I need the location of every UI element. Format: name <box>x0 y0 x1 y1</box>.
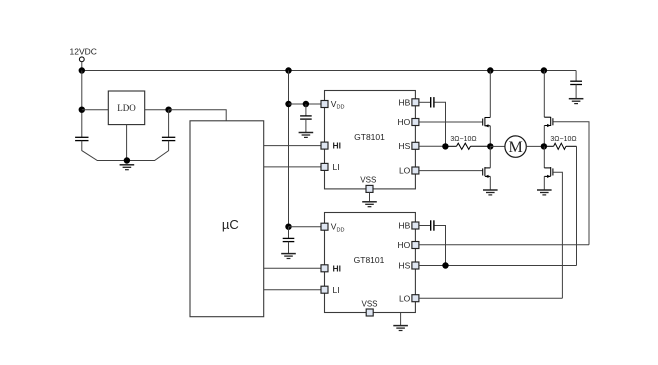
ground G8 <box>569 99 584 104</box>
pin HO U1 <box>412 119 419 126</box>
ground G3 <box>281 254 296 259</box>
node LDO input <box>79 107 85 113</box>
ground G1 <box>120 165 135 170</box>
wire rail to C7 <box>575 71 577 82</box>
motor M <box>505 136 526 157</box>
wire top supply rail <box>82 70 576 72</box>
node rail-vdd <box>285 67 291 73</box>
wire to LDO input <box>82 109 109 111</box>
wire VSS1 stem <box>369 192 371 201</box>
wire HS1 row <box>419 145 446 147</box>
wire uC to LI1 <box>264 166 321 168</box>
pin HI U1 <box>321 142 328 149</box>
wire LDO ground stem <box>126 125 128 161</box>
capacitor C7 <box>570 81 582 84</box>
wire VDD rail vertical <box>288 71 290 227</box>
terminal 12VDC <box>79 57 84 62</box>
node HS1 <box>442 143 448 149</box>
wire VDD1 to pin <box>289 103 322 105</box>
node VDD2 <box>285 224 291 230</box>
svg-text:HS: HS <box>398 141 410 151</box>
arrow Q4 source <box>547 175 550 178</box>
ground G6 <box>483 190 498 195</box>
svg-text:LO: LO <box>399 293 411 303</box>
wire terminal to rail <box>81 62 83 71</box>
svg-text:VSS: VSS <box>360 176 376 185</box>
svg-text:LI: LI <box>333 162 340 172</box>
pin HO U2 <box>412 242 419 249</box>
transistor Q2 low-side left <box>483 167 491 176</box>
wire motor right <box>526 145 544 147</box>
wire Q4 drain <box>543 146 545 168</box>
wire Q2 source to ground <box>489 176 491 190</box>
svg-text:HS: HS <box>398 261 410 271</box>
wire LDO output <box>145 109 169 111</box>
wire Q4 gate to LO2 riser <box>553 172 562 298</box>
gate driver U1 GT8101 <box>325 91 416 189</box>
wire R2 to HS2 riser <box>576 146 578 265</box>
wire VDD2 to pin <box>289 226 322 228</box>
transistor Q3 high-side right <box>544 117 553 126</box>
ground G7 <box>537 190 552 195</box>
pin HB U1 <box>412 99 419 106</box>
svg-text:3Ω−10Ω: 3Ω−10Ω <box>450 136 476 143</box>
node VDD1 <box>285 101 291 107</box>
node C3 top <box>303 101 309 107</box>
wire LDO output to uC <box>169 110 227 121</box>
wire Q3 gate to HO2 riser <box>554 122 590 245</box>
wire C4 top <box>288 227 290 239</box>
capacitor C3 <box>300 116 312 119</box>
svg-text:HB: HB <box>398 221 410 231</box>
wire Q2 drain <box>489 146 491 168</box>
svg-text:HB: HB <box>398 97 410 107</box>
capacitor C6 bootstrap <box>431 220 434 230</box>
svg-text:LI: LI <box>333 285 340 295</box>
wire HB2 to cap <box>419 225 430 227</box>
svg-text:HI: HI <box>333 141 342 151</box>
capacitor C1 <box>75 137 88 140</box>
ground G5 <box>393 326 408 331</box>
node LDO output <box>165 107 171 113</box>
svg-text:HO: HO <box>398 240 411 250</box>
pin VSS U1 <box>366 185 373 192</box>
pin LO U1 <box>412 167 419 174</box>
pin VDD U1 <box>321 101 328 108</box>
wire HO2 row <box>419 244 589 246</box>
wire C1 bottom <box>82 141 127 161</box>
wire VSS2 ground stem <box>400 313 402 326</box>
wire LO2 row <box>419 297 563 299</box>
svg-text:LDO: LDO <box>117 103 136 113</box>
pin VDD U2 <box>321 223 328 230</box>
pin HI U2 <box>321 265 328 272</box>
wire C3 top <box>305 104 307 116</box>
arrow Q2 source <box>485 175 488 178</box>
pin HB U2 <box>412 222 419 229</box>
wire uC to HI2 <box>264 267 321 269</box>
transistor Q4 low-side right <box>544 167 553 176</box>
transistor Q1 high-side left <box>483 117 491 126</box>
svg-text:12VDC: 12VDC <box>70 47 97 57</box>
pin HS U2 <box>412 262 419 269</box>
pin LI U1 <box>321 163 328 170</box>
svg-text:HO: HO <box>398 117 411 127</box>
ground G2 <box>299 133 314 138</box>
wire C7 bottom <box>575 85 577 99</box>
wire C2 bottom <box>127 141 169 161</box>
node bridge1 mid <box>487 143 493 149</box>
capacitor C2 <box>162 137 175 140</box>
wire C4 bottom <box>288 242 290 254</box>
ground G4 <box>362 202 377 207</box>
svg-text:VSS: VSS <box>361 299 377 308</box>
wire HB1 to cap <box>419 101 430 103</box>
svg-text:3Ω−10Ω: 3Ω−10Ω <box>550 136 576 143</box>
wire left rail down <box>81 71 83 138</box>
svg-text:µC: µC <box>222 217 239 232</box>
regulator LDO <box>108 91 144 125</box>
svg-text:GT8101: GT8101 <box>354 255 385 265</box>
node LDO ground <box>124 157 130 163</box>
microcontroller uC <box>190 121 264 317</box>
arrow Q3 source <box>547 124 550 127</box>
resistor R2 <box>544 143 577 149</box>
resistor R1 <box>445 143 490 149</box>
wire LO1 to gate <box>419 170 483 172</box>
node rail-bridge2 <box>541 67 547 73</box>
wire motor left <box>490 145 505 147</box>
capacitor C4 <box>283 238 295 241</box>
node rail-left <box>79 67 85 73</box>
wire HO1 to gate <box>419 121 483 123</box>
svg-text:HI: HI <box>333 263 342 273</box>
pin LO U2 <box>412 295 419 302</box>
wire C3 bottom <box>305 119 307 132</box>
gate driver U2 GT8101 <box>325 213 416 313</box>
arrow Q1 source <box>485 124 488 127</box>
pin LI U2 <box>321 286 328 293</box>
wire C5 to HS node <box>435 102 446 146</box>
wire uC to HI1 <box>264 145 321 147</box>
node HS2 <box>442 262 448 268</box>
wire Q1 source to mid <box>489 126 491 147</box>
svg-text:LO: LO <box>399 166 411 176</box>
wire Q4 source to ground <box>543 176 545 190</box>
wire Q3 drain <box>543 71 545 118</box>
wire HS2 row <box>419 265 577 267</box>
svg-text:M: M <box>508 139 522 156</box>
wire Q1 drain <box>489 71 491 118</box>
wire C2 top <box>168 110 170 138</box>
node rail-bridge1 <box>487 67 493 73</box>
wire C6 to HS2 node <box>435 226 446 266</box>
wire uC to LI2 <box>264 289 321 291</box>
pin VSS U2 <box>366 309 373 316</box>
pin HS U1 <box>412 142 419 149</box>
svg-text:GT8101: GT8101 <box>354 132 385 142</box>
node bridge2 mid <box>541 143 547 149</box>
wire Q3 source to mid <box>543 126 545 147</box>
capacitor C5 bootstrap <box>431 97 434 107</box>
